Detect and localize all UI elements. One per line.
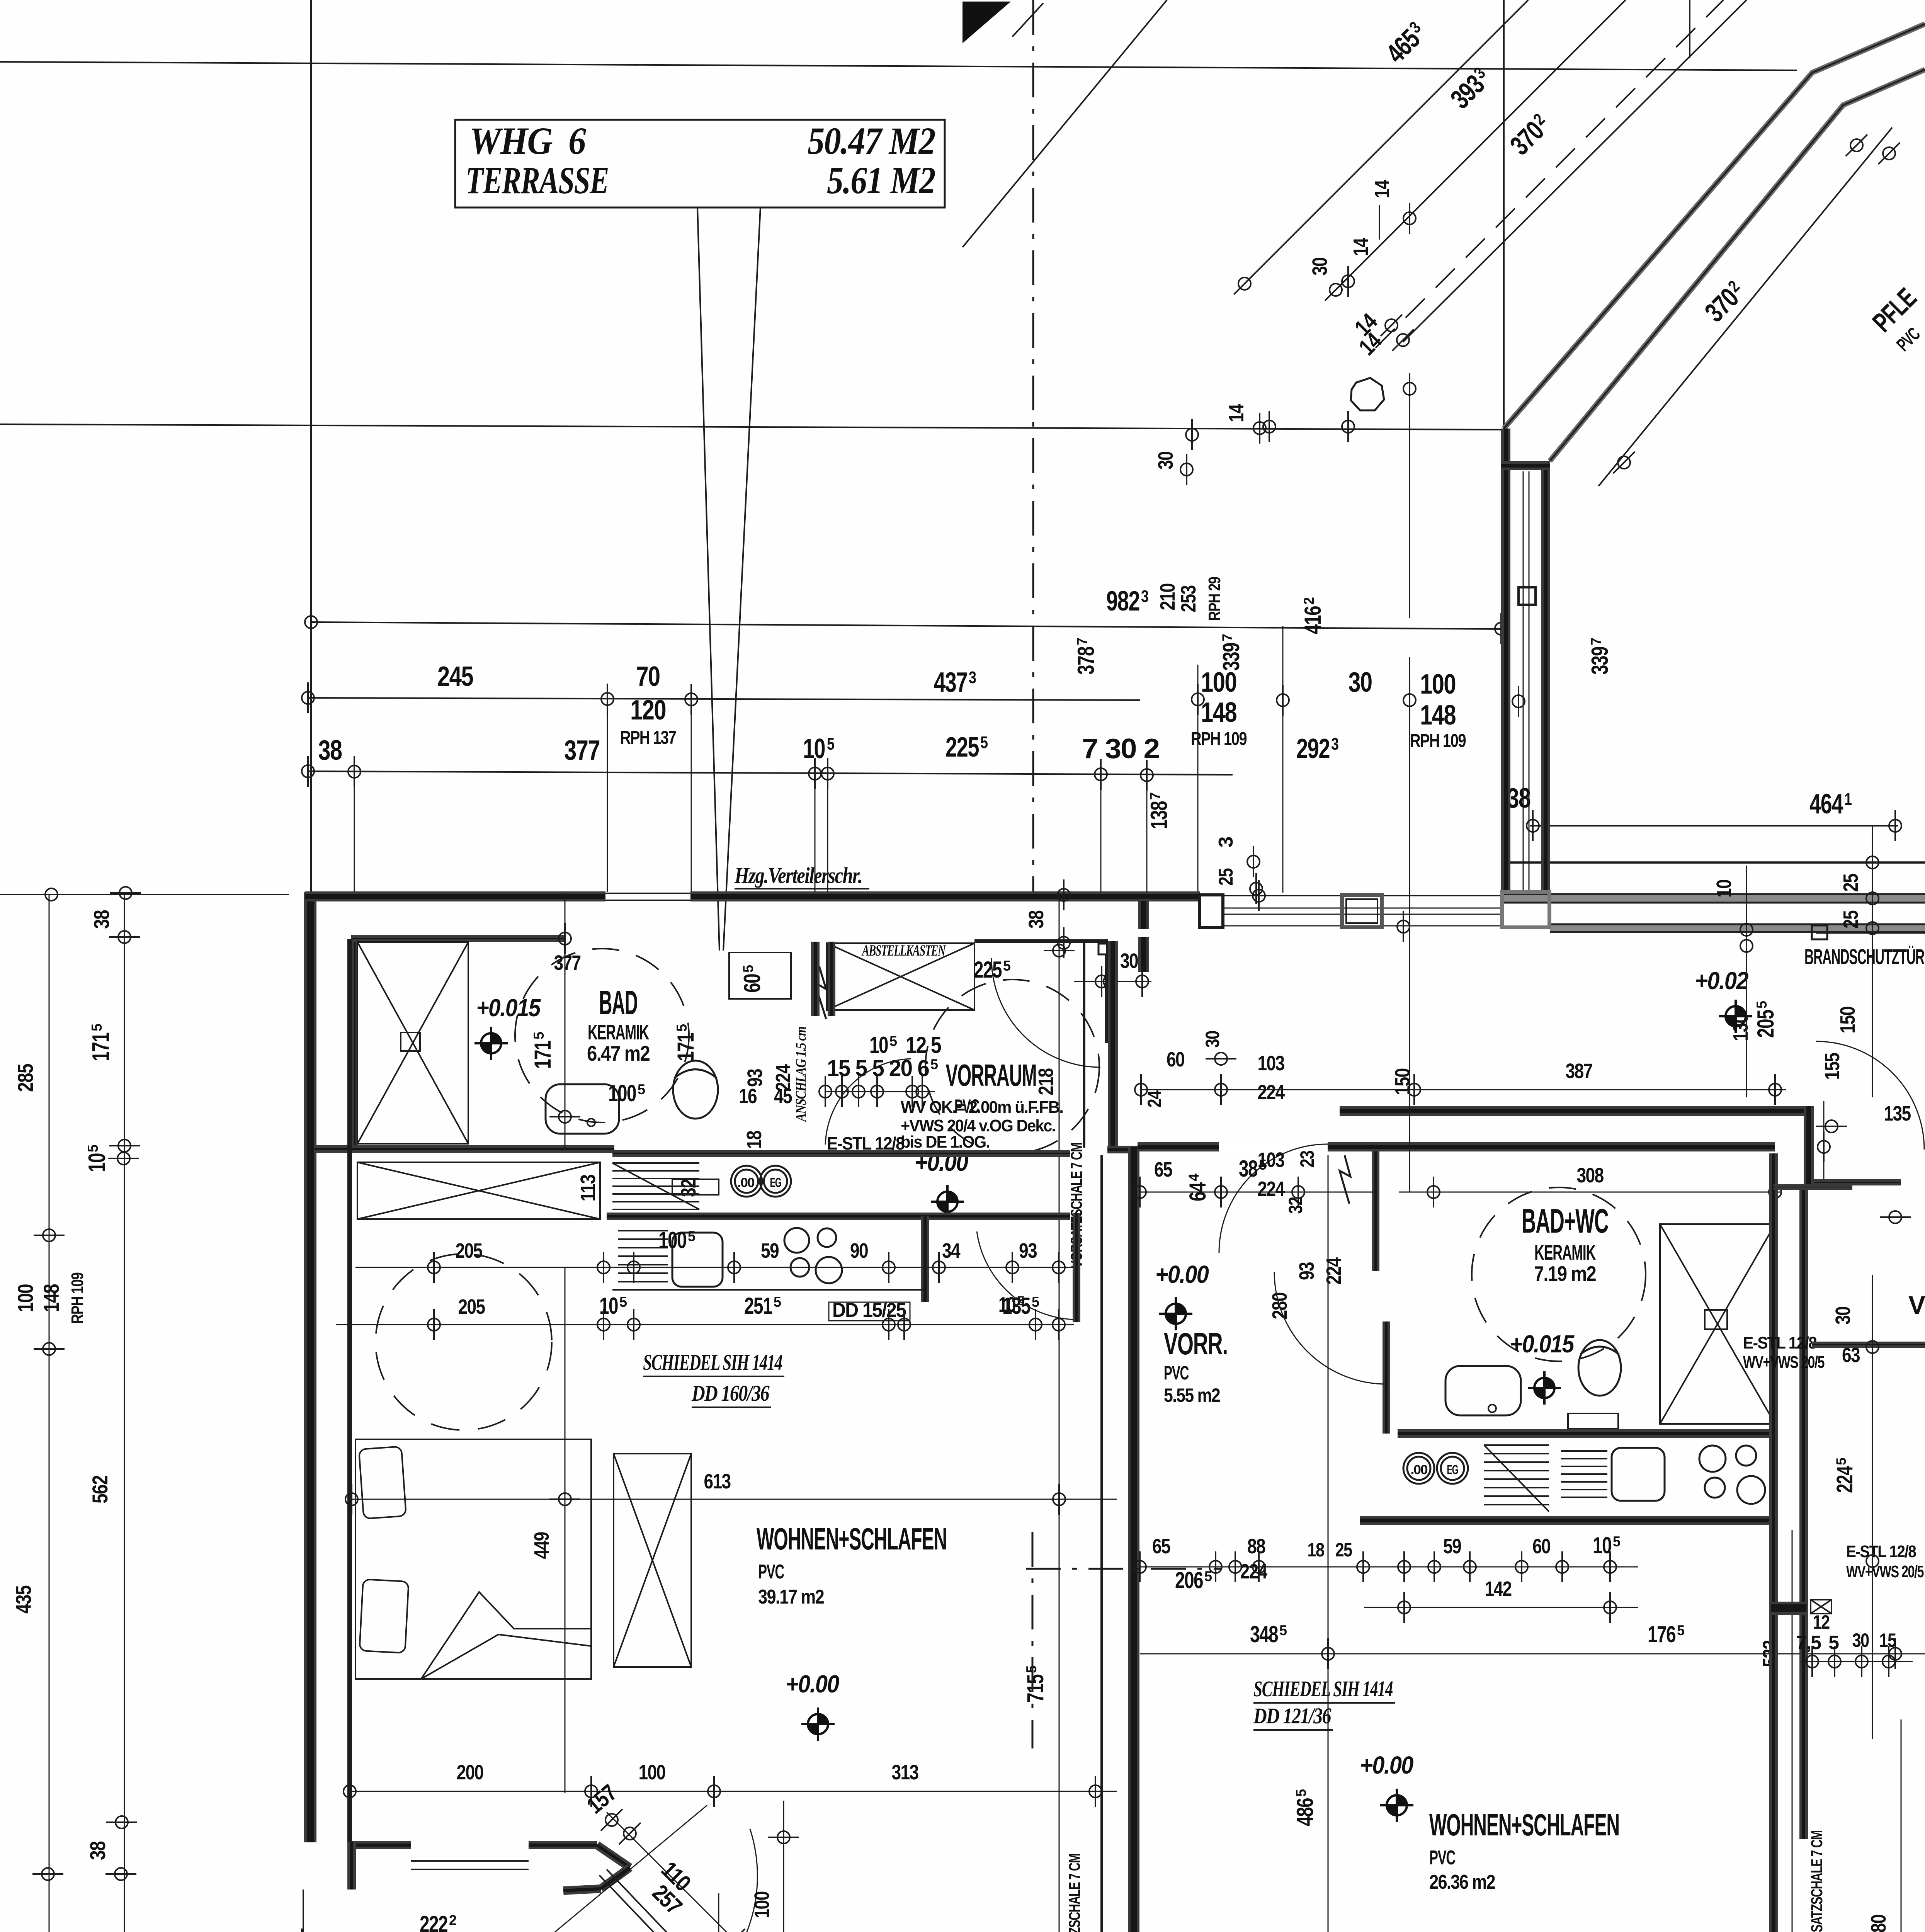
dimension line nb row xyxy=(1801,1661,1913,1662)
wall vorraum stub xyxy=(811,942,820,1016)
svg-text:222: 222 xyxy=(420,1911,447,1932)
dimension line 308 xyxy=(1399,1192,1781,1193)
node marker 308 a xyxy=(1427,1177,1440,1207)
svg-text:7: 7 xyxy=(1588,638,1604,645)
node marker 200b xyxy=(585,1776,597,1807)
svg-text:176: 176 xyxy=(1648,1621,1675,1647)
node marker beside octagon xyxy=(1403,373,1416,404)
svg-text:225: 225 xyxy=(945,732,979,763)
label 715-5 rotated xyxy=(1022,1665,1048,1702)
wall bay segment a xyxy=(529,1841,597,1849)
svg-text:25: 25 xyxy=(1215,868,1237,886)
node marker topmid c xyxy=(1253,413,1266,444)
node marker 348b xyxy=(1889,1638,1901,1669)
svg-text:14: 14 xyxy=(1225,404,1248,422)
label 348-5 xyxy=(1250,1621,1287,1647)
node marker 348a xyxy=(1322,1638,1334,1669)
svg-text:VORSATZSCHALE 7 CM: VORSATZSCHALE 7 CM xyxy=(1065,1854,1083,1932)
wire left boundary line y=2315 xyxy=(0,894,289,895)
svg-text:7,5: 7,5 xyxy=(1796,1632,1821,1653)
node marker x=3489 y=1100 xyxy=(1342,411,1354,442)
svg-text:378: 378 xyxy=(1073,647,1099,675)
wire vert dim x=3648 flat2 xyxy=(1409,893,1410,1192)
svg-text:93: 93 xyxy=(1019,1239,1037,1262)
node marker x=3930 y=1815 xyxy=(1512,686,1525,717)
label 465-3 xyxy=(1380,17,1432,69)
wall neighbour step c xyxy=(1812,1342,1925,1348)
svg-text:+0.00: +0.00 xyxy=(1360,1751,1413,1779)
fixture washbasin bad xyxy=(546,1084,619,1134)
hatch wardrobe flat1 xyxy=(614,1454,691,1667)
label 171-5 rot L xyxy=(88,1024,114,1061)
svg-text:KERAMIK: KERAMIK xyxy=(588,1020,649,1044)
hatch sink drainer flat1 xyxy=(618,1231,668,1282)
wire small diagonal near triangle xyxy=(1012,3,1043,37)
wall flat divider jog xyxy=(1107,1146,1139,1153)
svg-text:+0.00: +0.00 xyxy=(1155,1260,1209,1288)
node marker 222 a xyxy=(296,1929,308,1932)
svg-text:E-STL 12/8: E-STL 12/8 xyxy=(1846,1542,1916,1561)
node marker small x=3648 y=565 xyxy=(1403,203,1416,234)
dimension line 613 mid xyxy=(352,1499,1117,1500)
svg-text:224: 224 xyxy=(1322,1257,1345,1285)
wire vert dim line x=3320 top xyxy=(1282,626,1284,893)
wire vorsatzschale line flat1 xyxy=(1100,1155,1103,1932)
furniture blanket fold xyxy=(421,1592,591,1679)
label 222-2 xyxy=(420,1911,457,1932)
svg-text:4: 4 xyxy=(1186,1173,1202,1181)
label 10-5 krow xyxy=(1593,1532,1621,1558)
node marker row2 c xyxy=(685,684,697,715)
svg-text:12 5: 12 5 xyxy=(901,1032,941,1058)
node marker row3 g xyxy=(1247,846,1260,877)
svg-text:RPH 109: RPH 109 xyxy=(1410,731,1466,751)
wall shaft cap neighbour xyxy=(1771,1602,1806,1615)
wire schiedel underline2 xyxy=(692,1406,771,1408)
wire dashdot vertical mid xyxy=(1032,1532,1034,1748)
svg-text:206: 206 xyxy=(1175,1567,1203,1593)
label 393-3 xyxy=(1445,63,1496,114)
hatch box below bad xyxy=(357,1162,600,1219)
dimension line 142 xyxy=(1364,1607,1638,1608)
hatch shower flat2 xyxy=(1660,1224,1775,1424)
door arc flat1 entry xyxy=(991,958,1100,1067)
svg-text:100: 100 xyxy=(608,1080,636,1106)
wall north post mid xyxy=(1342,895,1382,927)
svg-text:148: 148 xyxy=(1201,697,1236,728)
svg-text:449: 449 xyxy=(530,1532,553,1559)
svg-text:65: 65 xyxy=(1154,1158,1172,1181)
svg-text:60: 60 xyxy=(1532,1535,1550,1558)
svg-text:30: 30 xyxy=(1154,452,1177,469)
wire short vertical line x=4373 top xyxy=(1689,0,1690,58)
svg-text:3: 3 xyxy=(1331,735,1339,753)
door gap badwc north xyxy=(1219,1140,1328,1155)
node marker x=3489 y=690 xyxy=(1342,266,1354,297)
label 171-5 rotated a xyxy=(530,1032,556,1069)
node marker LB5 xyxy=(106,1816,137,1828)
wire vert dim x=1860 terrace xyxy=(718,1893,719,1932)
svg-text:5: 5 xyxy=(688,1228,696,1244)
node marker x=3320 y=1812 xyxy=(1277,685,1289,716)
svg-text:93: 93 xyxy=(743,1069,767,1087)
node marker kr i xyxy=(1515,1551,1528,1582)
svg-text:30: 30 xyxy=(1831,1307,1855,1325)
label 100-5 k1 xyxy=(658,1227,696,1253)
node marker 465-3 xyxy=(1234,273,1255,294)
svg-text:+0.015: +0.015 xyxy=(476,994,541,1022)
svg-text:38: 38 xyxy=(1025,910,1048,929)
svg-text:E-STL 12/8: E-STL 12/8 xyxy=(1743,1333,1817,1352)
wire vertical line x=2674 centre axis dash-dot xyxy=(1032,0,1034,893)
svg-text:50.47 M2: 50.47 M2 xyxy=(808,119,935,162)
furniture blanket fold b xyxy=(421,1634,591,1679)
node shaft small square xyxy=(1519,587,1536,605)
node marker 387a xyxy=(1135,1074,1147,1105)
wire nb vert dim xyxy=(1872,1275,1873,1739)
svg-text:5.55 m2: 5.55 m2 xyxy=(1164,1384,1220,1406)
node shower centre square xyxy=(401,1032,420,1051)
svg-text:120: 120 xyxy=(630,695,666,726)
node level marker flat1 living xyxy=(801,1708,835,1741)
wire left dim line A xyxy=(49,895,50,1932)
svg-text:EG: EG xyxy=(1447,1463,1458,1477)
node marker sv c xyxy=(852,1076,865,1107)
svg-text:285: 285 xyxy=(13,1064,37,1092)
wire left dim line B xyxy=(124,893,125,1932)
node marker topmid a xyxy=(1180,454,1193,485)
dimension line 464-1 xyxy=(1530,825,1898,827)
fixture wc flat2 xyxy=(1578,1340,1621,1396)
node marker nb c xyxy=(1855,1646,1868,1677)
label 100-5 bad xyxy=(608,1080,645,1106)
wall kitchen stub right flat1 xyxy=(921,1216,929,1302)
wall bay angled a xyxy=(597,1845,630,1867)
wire left wall lining flat1 xyxy=(347,939,352,1842)
node marker nb b xyxy=(1828,1646,1841,1677)
svg-text:377: 377 xyxy=(564,735,600,766)
svg-text:BAD: BAD xyxy=(599,983,638,1022)
node marker bay a xyxy=(723,1929,745,1932)
node marker 142a xyxy=(1398,1592,1410,1623)
wall corridor bottom gray xyxy=(1550,924,1925,932)
wall flat2 north xyxy=(1340,1106,1811,1116)
wire arrow squiggle flat2 xyxy=(1340,1155,1350,1204)
svg-text:12: 12 xyxy=(1813,1611,1830,1633)
node marker k1 b xyxy=(597,1252,610,1283)
node marker LB4 xyxy=(108,1152,139,1165)
wall north post a xyxy=(1200,895,1223,927)
svg-text:BAD+WC: BAD+WC xyxy=(1522,1202,1609,1240)
svg-text:5: 5 xyxy=(1613,1534,1621,1549)
wall flat2 west stub lower xyxy=(1138,937,1149,972)
node marker window band a xyxy=(1253,880,1265,911)
wall bad south xyxy=(315,1145,614,1153)
node marker k1 f xyxy=(933,1252,945,1283)
wall corner stub vertical xyxy=(347,1841,356,1889)
wire dashdot cross horizontal xyxy=(1026,1568,1222,1570)
wire vertical construction line x=805 xyxy=(310,0,312,893)
svg-text:2: 2 xyxy=(1301,597,1317,605)
label 10-5 rot L xyxy=(84,1145,111,1172)
door leaf terrace diagonal b xyxy=(607,1869,687,1932)
svg-text:88: 88 xyxy=(1247,1535,1265,1558)
fixture burners flat1 xyxy=(784,1228,842,1283)
svg-text:10: 10 xyxy=(1712,880,1736,898)
wall flat2 east upper xyxy=(1804,1106,1814,1186)
svg-text:5: 5 xyxy=(674,1024,690,1032)
svg-text:205: 205 xyxy=(1753,1010,1779,1038)
node marker k1 g xyxy=(1006,1252,1019,1283)
node marker row3 e xyxy=(1095,759,1107,790)
wire dashed diagonal centreline xyxy=(1376,0,1723,348)
wire vert dim x=4520 corridor xyxy=(1746,866,1747,1097)
label 135-5 k2 xyxy=(1002,1293,1039,1319)
svg-text:5: 5 xyxy=(1259,1157,1267,1173)
label 206-5 xyxy=(1175,1567,1212,1593)
node marker row3 f xyxy=(1141,760,1153,791)
wire corridor vert dim x=4846 xyxy=(1872,826,1873,1097)
door leaf terrace diagonal a xyxy=(599,1875,679,1932)
svg-text:5: 5 xyxy=(1828,1632,1839,1653)
svg-text:100: 100 xyxy=(639,1761,665,1784)
node marker 200c xyxy=(708,1776,720,1807)
wall kitchen f2 bottom xyxy=(1360,1516,1774,1525)
node marker nb r1 xyxy=(1816,1120,1847,1133)
fixture burners flat2 xyxy=(1699,1446,1765,1504)
label 10-5 12 5 row xyxy=(869,1032,941,1058)
wire leader line from title box right xyxy=(723,207,760,951)
svg-text:171: 171 xyxy=(88,1033,114,1061)
label 486-5 rotated xyxy=(1292,1789,1318,1826)
wire window projection g xyxy=(1146,776,1148,893)
svg-text:5: 5 xyxy=(1677,1622,1685,1638)
svg-text:ABSTELLKASTEN: ABSTELLKASTEN xyxy=(861,942,946,959)
svg-text:224: 224 xyxy=(1832,1466,1857,1493)
svg-text:Hzg.Verteilerschr.: Hzg.Verteilerschr. xyxy=(734,863,862,888)
svg-text:138: 138 xyxy=(1146,801,1172,829)
node marker kr h xyxy=(1464,1551,1476,1582)
svg-text:100: 100 xyxy=(1201,667,1236,698)
label 15 5 5 20 6-5 row xyxy=(827,1055,938,1081)
wire hzg underline xyxy=(735,888,869,889)
node marker LB2 xyxy=(109,931,140,943)
wire shaft inner line b xyxy=(1529,471,1530,893)
svg-text:5: 5 xyxy=(1754,1001,1770,1009)
svg-text:7: 7 xyxy=(1074,638,1090,645)
svg-text:3: 3 xyxy=(1141,587,1149,606)
wire corridor门 vert xyxy=(1823,1101,1825,1182)
circle accessibility living dashed xyxy=(376,1254,552,1430)
label 38-5 flat2 xyxy=(1239,1156,1267,1182)
node marker sv b xyxy=(836,1076,848,1107)
svg-text:10: 10 xyxy=(599,1293,618,1319)
svg-text:38: 38 xyxy=(85,1841,110,1860)
svg-text:RPH 109: RPH 109 xyxy=(1191,729,1246,749)
svg-text:982: 982 xyxy=(1106,586,1139,617)
wire shaft inner line a xyxy=(1523,471,1524,893)
label 370-2 along ramp xyxy=(1699,276,1751,328)
dimension line 30 wall xyxy=(1074,981,1151,982)
node marker 982 right xyxy=(1495,613,1507,644)
wire window projection e xyxy=(827,775,828,892)
label 171-5 rotated b xyxy=(673,1024,699,1061)
node marker LA3 xyxy=(34,1343,65,1355)
label 437-3 xyxy=(934,667,976,698)
label 339-7 rotated b xyxy=(1587,638,1613,675)
svg-text:5: 5 xyxy=(827,735,835,753)
label 339-7 rotated a xyxy=(1218,634,1244,671)
svg-text:15: 15 xyxy=(1879,1629,1896,1651)
label 10-5 k2 xyxy=(599,1293,627,1319)
node marker 613 a xyxy=(345,1484,358,1515)
wire vert line x=3648 mid xyxy=(1409,657,1410,893)
svg-text:38: 38 xyxy=(89,910,114,929)
svg-text:464: 464 xyxy=(1809,789,1843,820)
svg-text:KERAMIK: KERAMIK xyxy=(1534,1240,1596,1264)
wire top horizontal construction line xyxy=(0,62,1797,70)
svg-text:245: 245 xyxy=(437,661,473,692)
svg-text:100: 100 xyxy=(750,1892,774,1918)
svg-text:200: 200 xyxy=(457,1761,483,1784)
node marker row2 b xyxy=(601,684,614,714)
dimension small row vorraum xyxy=(825,1091,935,1092)
node marker LB1 xyxy=(110,887,141,899)
wire vert dim x=4638 flat2 xyxy=(1792,1530,1793,1932)
svg-text:PVC: PVC xyxy=(758,1561,784,1583)
svg-text:5: 5 xyxy=(1293,1789,1309,1797)
circle accessibility badwc dashed xyxy=(1472,1187,1646,1361)
furniture bed flat1 xyxy=(355,1439,591,1679)
svg-text:5: 5 xyxy=(638,1082,645,1097)
svg-text:70: 70 xyxy=(636,661,660,692)
svg-text:32: 32 xyxy=(1285,1197,1306,1214)
dimension line 387 row xyxy=(1141,1089,1786,1090)
wall north post mid inner xyxy=(1346,899,1377,923)
label 224-5 rotated nb xyxy=(1832,1458,1857,1493)
wall north segment 2 xyxy=(690,891,1200,901)
node marker kr k xyxy=(1604,1551,1616,1582)
wall flat2 east bottom seg xyxy=(1769,1839,1778,1932)
svg-text:10: 10 xyxy=(1593,1532,1611,1558)
node marker nb r2 xyxy=(1880,1211,1911,1223)
hatch drainer flat2 xyxy=(1561,1451,1607,1497)
svg-text:100: 100 xyxy=(13,1284,37,1312)
node marker k2 b xyxy=(597,1309,610,1340)
wall stair ramp outer edge xyxy=(1504,24,1925,429)
node marker sv f xyxy=(916,1076,928,1107)
svg-text:30: 30 xyxy=(1120,949,1138,973)
svg-text:EG: EG xyxy=(770,1175,781,1190)
node marker nb d xyxy=(1882,1646,1895,1677)
svg-text:30: 30 xyxy=(1852,1629,1869,1651)
wire vert dim line x=3100 top xyxy=(1197,665,1199,893)
fixture washbasin flat2 xyxy=(1445,1366,1521,1415)
node marker k1 c xyxy=(627,1252,640,1283)
label 982-3 xyxy=(1106,586,1149,617)
svg-text:171: 171 xyxy=(530,1041,556,1069)
node marker k1 h xyxy=(1053,1252,1065,1283)
svg-text:715: 715 xyxy=(1022,1675,1048,1702)
dimension line kitchen row1 xyxy=(355,1267,1074,1268)
svg-text:313: 313 xyxy=(892,1761,919,1784)
node marker bad mid xyxy=(549,1111,580,1123)
svg-text:142: 142 xyxy=(1485,1577,1512,1600)
dimension line flat2 row a xyxy=(1140,1192,1376,1193)
node marker k2 e xyxy=(898,1309,910,1340)
wire small box 60-5 xyxy=(729,952,791,999)
node marker corridor f xyxy=(1818,1131,1830,1162)
svg-text:435: 435 xyxy=(11,1585,36,1614)
wall neighbour step a xyxy=(1814,1179,1901,1185)
svg-text:5: 5 xyxy=(1834,1458,1849,1465)
svg-text:10: 10 xyxy=(803,733,825,764)
wall corridor middle gray xyxy=(1504,894,1925,903)
node marker sv d xyxy=(871,1076,883,1107)
wire vert dim x=2741 xyxy=(1059,893,1060,1932)
hatch shower box bad xyxy=(357,942,468,1144)
svg-text:38: 38 xyxy=(318,735,342,766)
node marker 387b xyxy=(1215,1074,1227,1105)
wire window projection a xyxy=(607,700,608,892)
svg-text:+0.02: +0.02 xyxy=(1695,967,1748,995)
wire window projection c xyxy=(354,773,355,892)
node marker x=3285 y=1100 xyxy=(1263,411,1275,442)
svg-text:RPH 109: RPH 109 xyxy=(68,1273,87,1324)
svg-text:ANSCHLAG 1.5 cm: ANSCHLAG 1.5 cm xyxy=(793,1027,809,1122)
node marker f2b xyxy=(1215,1177,1227,1207)
window terrace door line a xyxy=(411,1860,529,1862)
node marker sv e xyxy=(906,1076,918,1107)
wire schiedel underline1 xyxy=(643,1376,784,1377)
door arc kitchen right xyxy=(977,1231,1075,1320)
svg-text:308: 308 xyxy=(1577,1164,1604,1187)
svg-text:+0.00: +0.00 xyxy=(786,1670,839,1698)
wall bad west inner xyxy=(351,935,358,1148)
node marker kr j xyxy=(1556,1551,1568,1582)
label 176-5 xyxy=(1648,1621,1685,1647)
node marker k2 d xyxy=(883,1309,895,1340)
svg-text:+0.015: +0.015 xyxy=(1510,1330,1575,1358)
door arc vorraum-bad xyxy=(825,1059,911,1145)
svg-text:437: 437 xyxy=(934,667,967,698)
svg-text:7: 7 xyxy=(1147,792,1163,800)
node marker k2 c xyxy=(627,1309,640,1340)
svg-text:292: 292 xyxy=(1296,733,1330,764)
circle accessibility vorraum dashed xyxy=(925,980,1099,1153)
wire window projection b xyxy=(691,700,692,892)
node marker niche top xyxy=(1058,879,1070,910)
svg-text:SCHIEDEL SIH 1414: SCHIEDEL SIH 1414 xyxy=(1253,1676,1393,1701)
node marker 613 b xyxy=(1053,1484,1065,1515)
wall kitchen bottom flat1 xyxy=(607,1213,1070,1220)
dimension line 982-3 xyxy=(311,622,1504,629)
wall stair ramp outer edge ink xyxy=(1504,24,1925,429)
svg-text:253: 253 xyxy=(1177,585,1200,612)
svg-text:VORRAUM: VORRAUM xyxy=(946,1058,1037,1092)
wire estl underline xyxy=(827,1154,906,1155)
dimension line f2 krow xyxy=(1140,1566,1638,1568)
wall flat2 west stub xyxy=(1138,901,1149,929)
node marker kr b xyxy=(1209,1551,1222,1582)
wall shaft left xyxy=(1501,429,1510,893)
svg-text:DD 121/36: DD 121/36 xyxy=(1253,1703,1331,1728)
svg-text:1: 1 xyxy=(1844,790,1852,809)
svg-text:613: 613 xyxy=(704,1470,731,1493)
wall flat divider xyxy=(1128,1147,1139,1932)
door arc badwc xyxy=(1274,1272,1386,1384)
node marker kr e xyxy=(1357,1551,1369,1582)
